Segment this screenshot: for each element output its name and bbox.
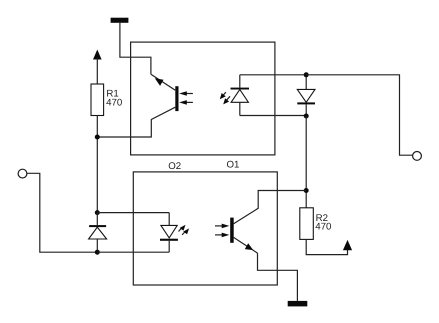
- svg-text:O2: O2: [168, 161, 181, 172]
- svg-text:470: 470: [106, 98, 123, 109]
- svg-text:470: 470: [315, 222, 332, 233]
- svg-text:O1: O1: [227, 159, 240, 170]
